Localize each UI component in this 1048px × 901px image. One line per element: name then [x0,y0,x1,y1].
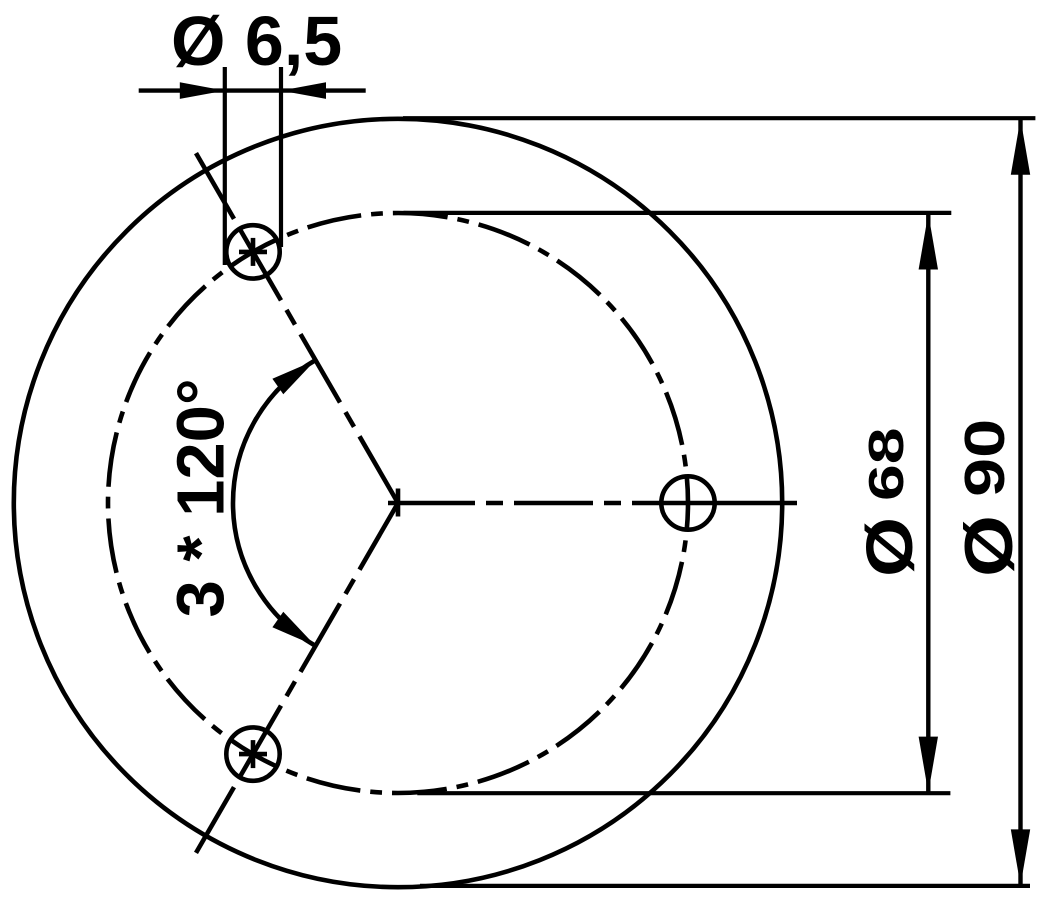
arrowhead top of angle arc [272,360,315,394]
arrowhead bottom of angle arc [272,612,315,646]
extension line left (hole tangent) [223,67,227,265]
svg-text:3 * 120°: 3 * 120° [163,378,238,617]
hole circle at 0deg [661,476,714,529]
dimension text D90 [950,419,1026,577]
arrowhead down D68 [919,737,938,793]
arrowhead pointing right at left tangent [180,82,225,99]
extension line top of bolt circle [404,211,952,215]
node: flange centre mark [396,489,401,517]
arrowhead up D68 [919,214,938,270]
angle dimension arc 3*120deg [233,360,316,646]
arrowhead up D90 [1011,119,1030,175]
dimension line D68 [926,214,930,792]
centre mark of hole at 240deg [239,740,267,768]
svg-text:68: 68 [859,427,914,501]
extension line bottom of outer circle [420,884,1030,888]
dimension text D68 [853,427,927,577]
hole circle at 120deg [226,225,279,278]
wire: 240deg centre line through lower-left hole [196,503,398,853]
arrowhead down D90 [1011,829,1030,885]
hole circle at 240deg [226,727,279,780]
extension line bottom of bolt circle [417,791,950,795]
bolt circle D68 (dash-dot) [108,213,688,793]
svg-text:Ø: Ø [950,515,1026,577]
svg-text:90: 90 [952,419,1016,497]
svg-text:Ø: Ø [853,517,927,577]
arrowhead pointing left at right tangent [281,82,326,99]
wire: horizontal centre line through right hole [388,501,797,506]
extension line top of outer circle [403,116,1035,120]
centre mark of hole at 120deg [239,238,267,266]
svg-text:Ø 6,5: Ø 6,5 [171,2,342,80]
wire: 120deg centre line through upper-left hole [196,153,398,503]
dimension line D90 [1018,119,1022,885]
extension line right (hole tangent) [279,67,283,247]
dimension line D6,5 [139,88,366,92]
outer flange circle D90 [14,119,782,887]
